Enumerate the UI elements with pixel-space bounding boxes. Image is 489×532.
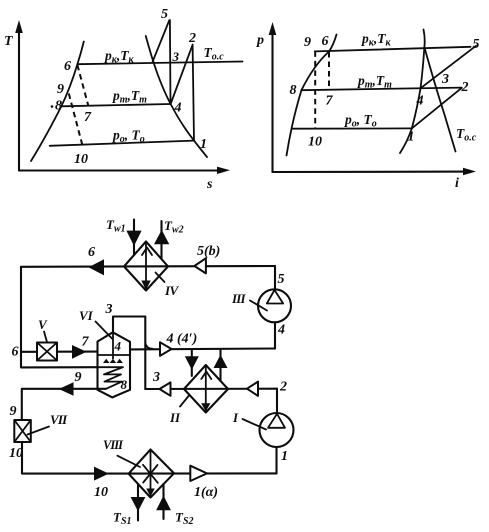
- svg-text:7: 7: [326, 94, 334, 109]
- open arrow 4': [160, 342, 172, 356]
- flow arrow 10: [94, 467, 109, 481]
- label VI: [79, 308, 112, 339]
- svg-text:4: 4: [416, 94, 424, 109]
- svg-text:2: 2: [279, 380, 287, 395]
- dashed throttle 9-10: [69, 94, 83, 145]
- svg-text:5: 5: [473, 37, 480, 52]
- evaporator VIII: [129, 450, 174, 498]
- svg-text:4: 4: [114, 339, 122, 354]
- node 8: [51, 105, 54, 108]
- svg-text:8: 8: [55, 99, 62, 114]
- isobar line pm,Tm: [61, 104, 170, 106]
- isobar line p0,T0: [50, 141, 194, 146]
- wire 4 to compressor III: [274, 322, 276, 348]
- svg-text:III: III: [231, 291, 247, 306]
- Tw2 outlet: [154, 218, 184, 259]
- svg-text:i: i: [455, 176, 459, 191]
- svg-text:1: 1: [408, 130, 415, 145]
- svg-text:10: 10: [308, 135, 322, 150]
- Ts2 outlet: [156, 484, 193, 527]
- wire 10 vertical: [22, 442, 277, 474]
- isobar pk: [315, 47, 471, 52]
- svg-text:1: 1: [281, 449, 288, 464]
- svg-text:9: 9: [304, 35, 311, 50]
- intercooler II outlet arrow: [214, 349, 228, 381]
- wire right vertical 5: [274, 266, 276, 290]
- svg-text:s: s: [206, 177, 213, 192]
- saturation dome right branch: [146, 36, 207, 157]
- compressor III: [231, 289, 291, 322]
- svg-text:II: II: [169, 410, 181, 425]
- intercooler II inlet arrow: [185, 349, 199, 376]
- valve VII: [14, 412, 68, 442]
- svg-text:3: 3: [172, 49, 180, 64]
- svg-text:1: 1: [200, 137, 207, 152]
- dashed throttle 6-7: [77, 65, 88, 105]
- isentrope 1-2: [193, 45, 194, 141]
- svg-text:9: 9: [57, 82, 64, 97]
- condenser IV: [124, 242, 180, 299]
- open arrow 2: [247, 382, 258, 396]
- dashed throttle 9-10: [314, 51, 316, 128]
- compression 1-2: [412, 88, 462, 129]
- svg-text:4: 4: [174, 101, 182, 116]
- wire 6-line through V: [21, 351, 37, 353]
- open arrow 3: [160, 382, 171, 395]
- svg-text:2: 2: [188, 31, 196, 46]
- svg-text:5: 5: [161, 7, 168, 22]
- svg-text:4 (4′): 4 (4′): [166, 332, 198, 347]
- open arrow 1(a): [190, 466, 207, 481]
- isentrope 4-5: [169, 20, 172, 104]
- svg-text:VII: VII: [50, 412, 68, 427]
- wire condenser line 6/5b: [21, 265, 275, 268]
- valve V: [37, 317, 57, 361]
- wire 4-line: [130, 347, 275, 350]
- intercooler II: [169, 365, 228, 425]
- axis i: [273, 168, 477, 191]
- superheat isobar pm 4-2: [171, 46, 193, 104]
- superheat isobar pk to 5: [153, 21, 170, 62]
- axis s: [19, 167, 230, 192]
- svg-text:8: 8: [121, 377, 128, 392]
- Ts1 inlet: [113, 484, 145, 527]
- svg-text:9: 9: [75, 370, 82, 385]
- compressor I: [232, 410, 294, 447]
- compression 4-5: [421, 46, 476, 88]
- svg-text:2: 2: [461, 80, 469, 95]
- isobar line pk,Tk: [77, 62, 242, 65]
- svg-text:6: 6: [64, 59, 71, 74]
- svg-text:V: V: [38, 317, 48, 332]
- wire 3-loop over vessel: [113, 317, 145, 390]
- svg-text:1(α): 1(α): [194, 485, 218, 500]
- svg-text:7: 7: [82, 335, 90, 350]
- svg-text:VI: VI: [79, 308, 94, 323]
- svg-text:10: 10: [94, 485, 108, 500]
- wire 1 to compressor I: [275, 447, 277, 473]
- svg-text:4: 4: [277, 323, 285, 338]
- svg-text:3: 3: [105, 302, 113, 317]
- svg-text:3: 3: [441, 72, 449, 87]
- svg-text:p: p: [256, 33, 264, 48]
- svg-text:VIII: VIII: [103, 438, 124, 452]
- dashed throttle 6-7: [328, 52, 330, 90]
- isobar pm: [301, 88, 461, 91]
- dome left branch: [287, 35, 337, 156]
- saturation dome left branch: [31, 42, 84, 162]
- svg-text:8: 8: [290, 83, 297, 98]
- svg-text:I: I: [232, 410, 239, 425]
- isotherm Toc: [425, 48, 456, 152]
- dome right branch: [400, 30, 425, 154]
- wire 2-line: [276, 389, 278, 413]
- flow arrow 9: [59, 382, 74, 396]
- svg-text:3: 3: [152, 370, 160, 385]
- svg-text:5: 5: [278, 272, 285, 287]
- label VIII: [103, 438, 140, 467]
- intermediate vessel VI: [98, 332, 131, 397]
- svg-text:5(b): 5(b): [197, 244, 220, 259]
- Tw1 inlet: [106, 217, 142, 255]
- svg-text:6: 6: [88, 245, 95, 260]
- isobar p0: [293, 127, 412, 129]
- wire left vertical 6: [21, 267, 98, 368]
- axis p: [256, 22, 276, 172]
- svg-text:IV: IV: [164, 283, 180, 298]
- junction curl: [145, 343, 152, 349]
- svg-text:6: 6: [12, 345, 19, 360]
- flow arrow 6: [89, 259, 105, 275]
- svg-text:T: T: [4, 34, 14, 49]
- svg-text:9: 9: [10, 404, 17, 419]
- wire 3-line: [145, 388, 277, 390]
- svg-text:6: 6: [322, 34, 329, 49]
- flow arrow 7: [72, 345, 87, 359]
- open arrow 5(b): [194, 258, 206, 273]
- svg-text:10: 10: [74, 152, 88, 167]
- axis T: [4, 20, 23, 171]
- wire 9-line: [22, 389, 106, 420]
- svg-text:7: 7: [84, 110, 92, 125]
- svg-text:10: 10: [9, 446, 23, 461]
